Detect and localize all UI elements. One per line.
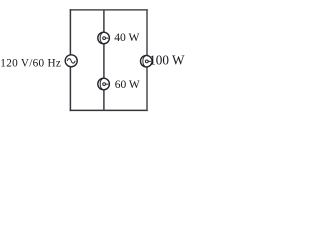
wire: middle vertical branch [103, 10, 105, 111]
svg-text:100 W: 100 W [149, 53, 185, 68]
lamp 100 W [141, 55, 153, 67]
svg-text:40 W: 40 W [114, 31, 139, 44]
lamp 40 W [98, 32, 110, 44]
wire: bottom [70, 109, 148, 111]
lamp 60 W [98, 78, 110, 90]
svg-text:120 V/60 Hz: 120 V/60 Hz [0, 57, 61, 69]
wire: left [69, 9, 71, 111]
wire: top [70, 9, 148, 11]
wire: right [146, 9, 148, 111]
AC source 120 V/60 Hz [65, 55, 77, 67]
svg-text:60 W: 60 W [115, 79, 140, 91]
